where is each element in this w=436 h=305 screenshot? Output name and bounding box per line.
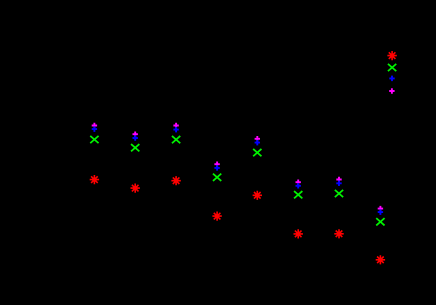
green X point 5 bbox=[253, 149, 261, 156]
magenta plus point 7 bbox=[336, 177, 341, 183]
green X point 4 bbox=[213, 174, 221, 181]
legend sample: magenta plus series bbox=[389, 88, 394, 94]
blue plus point 3 bbox=[173, 127, 178, 133]
blue plus point 4 bbox=[214, 165, 219, 171]
green X point 8 bbox=[376, 218, 384, 225]
red asterisk point 2 bbox=[131, 184, 140, 193]
legend sample: green X series bbox=[388, 64, 396, 71]
red asterisk point 1 bbox=[90, 175, 99, 184]
green X point 2 bbox=[131, 144, 139, 151]
blue plus point 7 bbox=[336, 181, 341, 187]
series 1: red 8-point asterisk markers bbox=[90, 51, 397, 264]
green X point 7 bbox=[335, 190, 343, 197]
red asterisk point 3 bbox=[171, 176, 180, 185]
series 3: blue plus markers bbox=[92, 76, 395, 215]
red asterisk point 4 bbox=[212, 212, 221, 221]
magenta plus point 3 bbox=[173, 123, 178, 129]
magenta plus point 8 bbox=[378, 206, 383, 212]
red asterisk point 8 bbox=[376, 255, 385, 264]
series 2: green X markers bbox=[90, 64, 396, 226]
blue plus point 6 bbox=[296, 183, 301, 189]
blue plus point 2 bbox=[133, 135, 138, 141]
green X point 3 bbox=[172, 136, 180, 143]
magenta plus point 1 bbox=[92, 123, 97, 129]
red asterisk point 5 bbox=[253, 191, 262, 200]
green X point 1 bbox=[90, 136, 98, 143]
magenta plus point 6 bbox=[296, 179, 301, 185]
blue plus point 5 bbox=[255, 140, 260, 146]
red asterisk point 7 bbox=[334, 229, 343, 238]
legend sample: blue plus series bbox=[389, 76, 394, 82]
legend sample: red asterisk series bbox=[387, 51, 396, 60]
magenta plus point 4 bbox=[214, 161, 219, 167]
blue plus point 8 bbox=[378, 209, 383, 215]
blue plus point 1 bbox=[92, 126, 97, 132]
red asterisk point 6 bbox=[294, 229, 303, 238]
green X point 6 bbox=[294, 191, 302, 198]
magenta plus point 2 bbox=[133, 131, 138, 137]
series 4: magenta plus markers bbox=[92, 88, 395, 211]
magenta plus point 5 bbox=[255, 136, 260, 142]
